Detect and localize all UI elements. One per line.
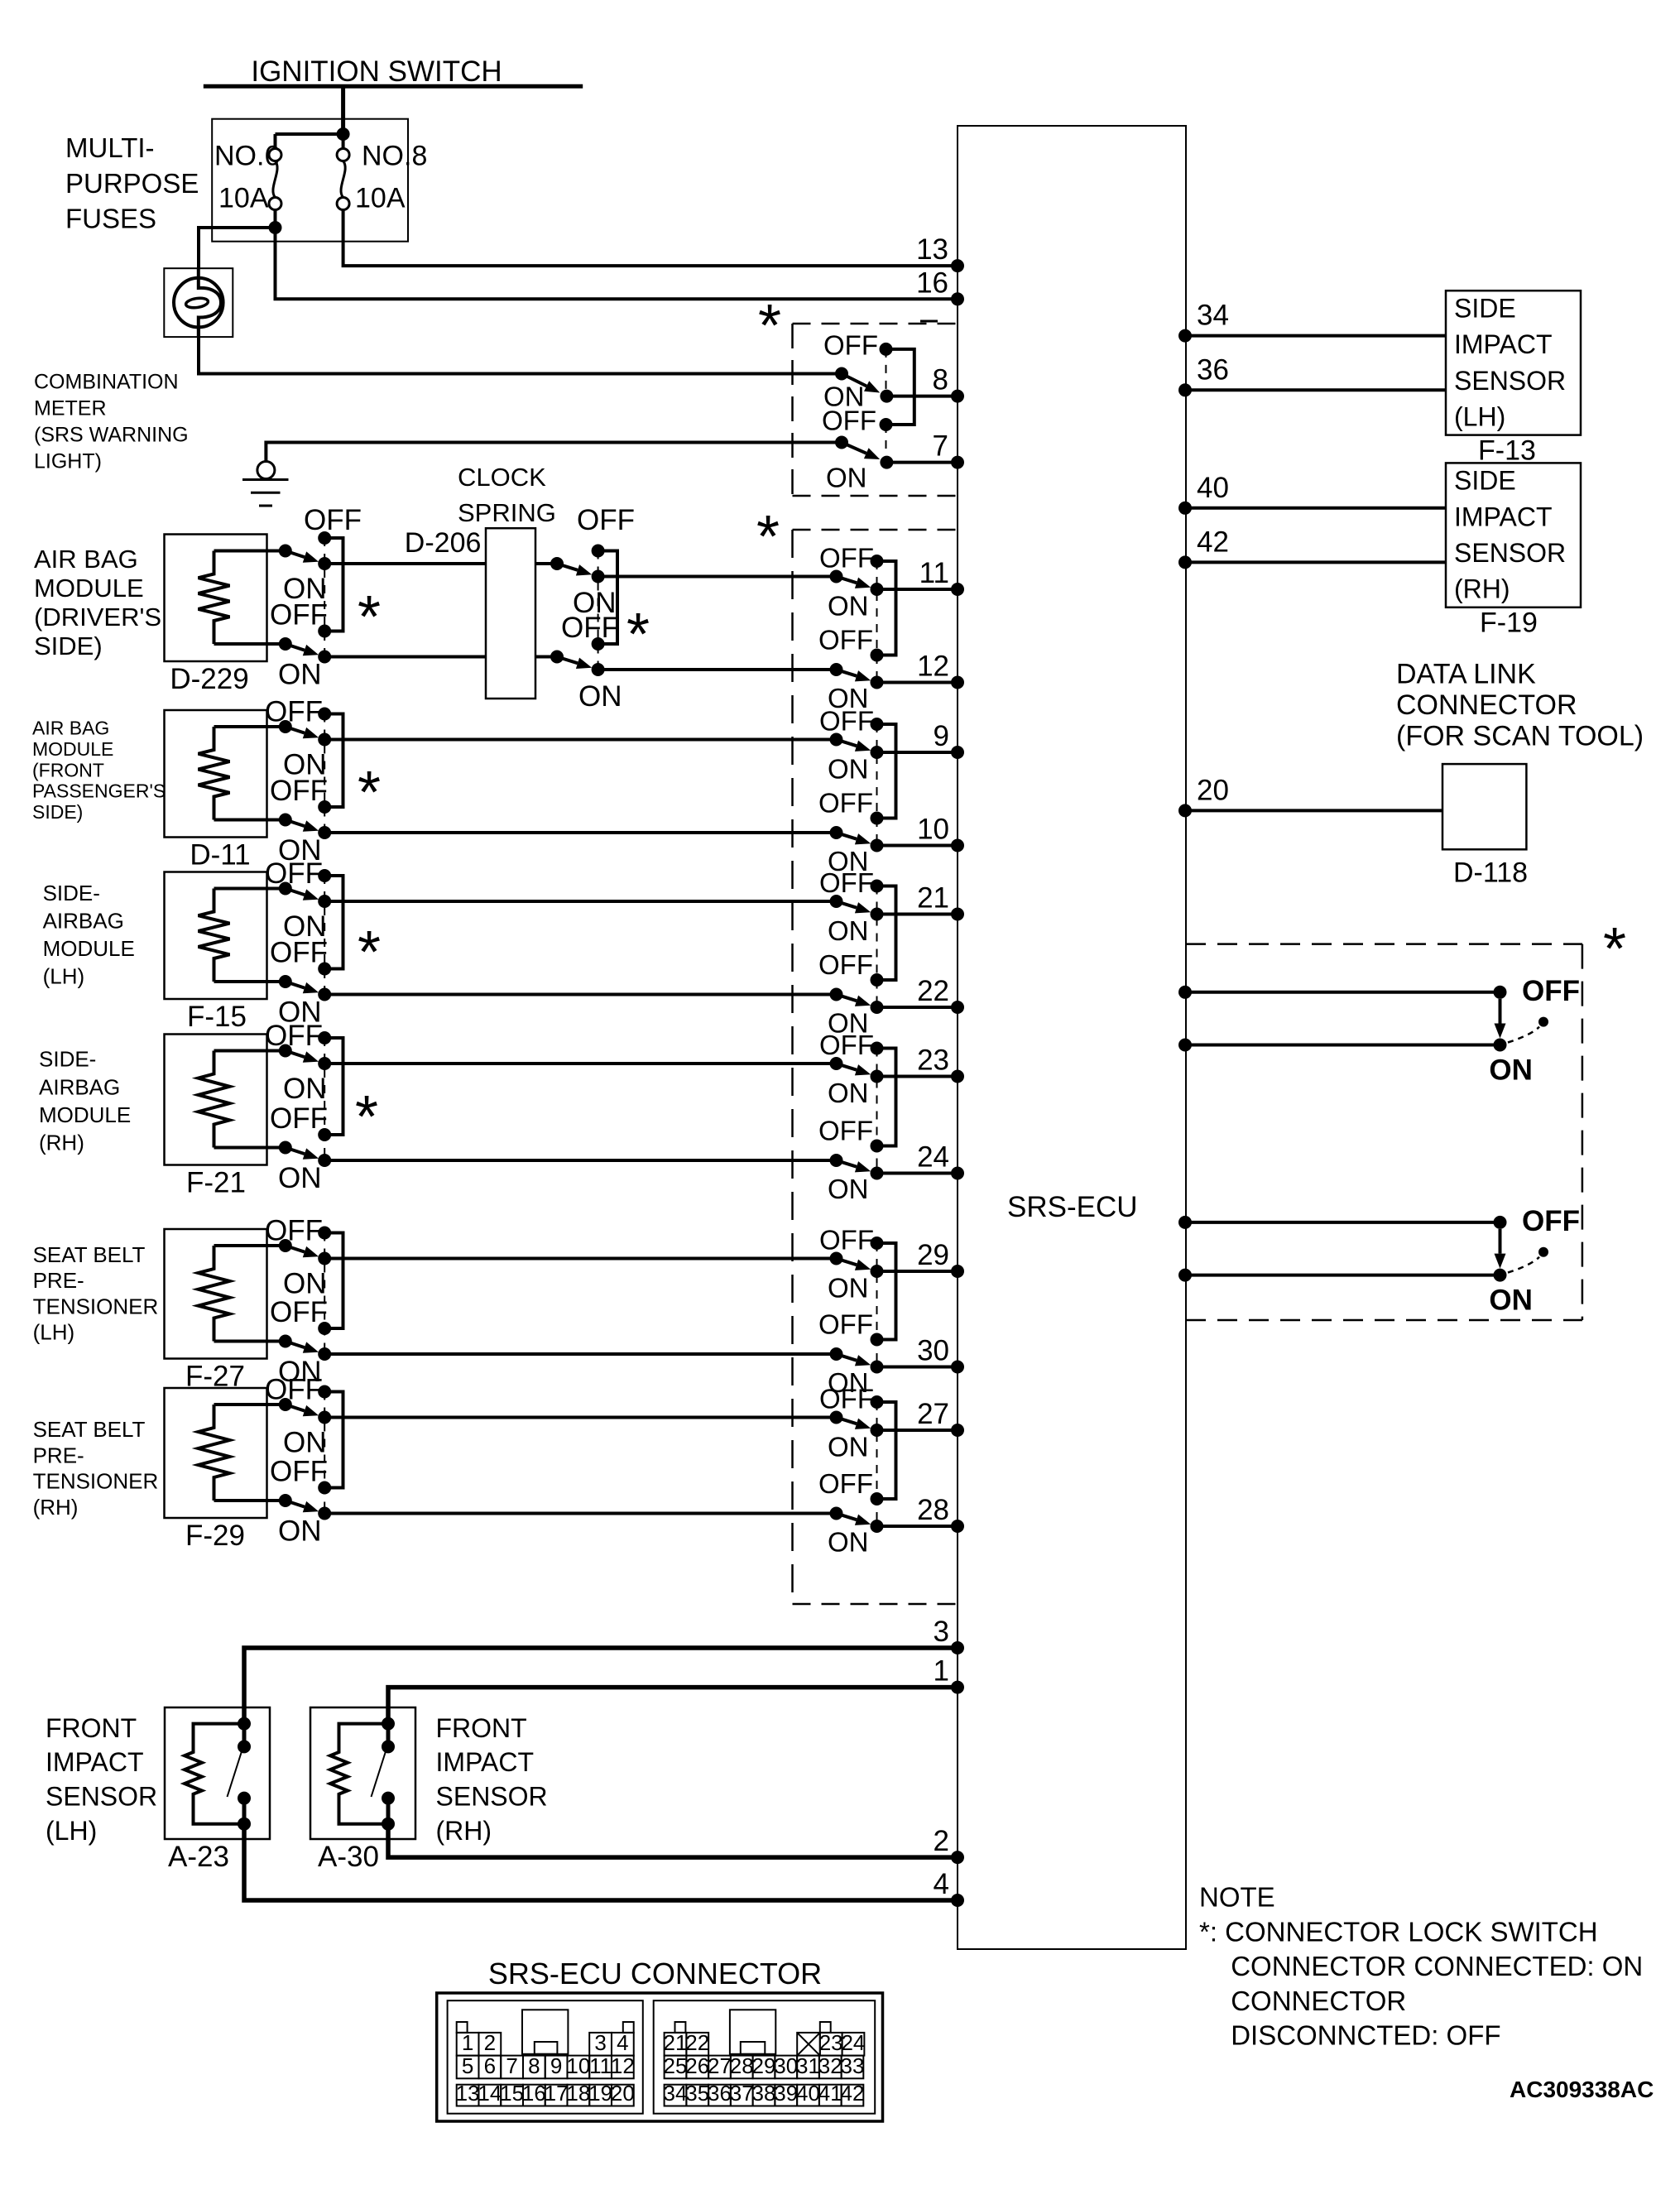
contact OFF right lock switch 2 [1538, 1247, 1548, 1257]
switch arm F-21 top [286, 1051, 305, 1058]
svg-text:OFF: OFF [265, 1374, 323, 1406]
lock linkage dashed pins 21-22 [876, 886, 878, 1008]
svg-text:(RH): (RH) [436, 1816, 492, 1846]
wire OFF bridge clock spring switches [598, 551, 617, 645]
switch arm right lock switch 2 [1499, 1229, 1502, 1254]
svg-text:(RH): (RH) [39, 1130, 84, 1155]
svg-text:D-206: D-206 [405, 527, 482, 559]
module box D-11 [165, 710, 267, 838]
wire squib top lead F-15 [214, 887, 286, 891]
svg-text:OFF: OFF [265, 696, 323, 728]
wire contacts A-30 [386, 1724, 391, 1747]
switch arm D-11 top [286, 727, 305, 733]
svg-text:(SRS WARNING: (SRS WARNING [34, 423, 189, 446]
contact OFF D-11 bottom [318, 800, 331, 814]
svg-text:IMPACT: IMPACT [1454, 502, 1553, 531]
lock linkage dashed F-29 [324, 1392, 325, 1514]
contact OFF pin 7 switch [880, 418, 893, 431]
svg-text:OFF: OFF [818, 625, 873, 655]
svg-text:ON: ON [578, 680, 622, 713]
contact OFF pin 21 switch [871, 880, 884, 893]
dashed box pins 8-7 bottom [793, 495, 958, 497]
wire fuse NO.6 output [274, 210, 277, 230]
switch arm pin 24 [837, 1160, 857, 1167]
wire to fuse NO.8 [342, 136, 345, 149]
module box F-15 [165, 872, 267, 1000]
contact ON pin 24 switch [871, 1167, 884, 1180]
contact input F-21 bottom [279, 1141, 292, 1155]
connector half 2 tab right [820, 2022, 831, 2033]
contact input clock spring switch bottom [550, 651, 564, 664]
svg-text:ON: ON [828, 591, 869, 622]
svg-text:OFF: OFF [561, 612, 619, 644]
wire pin 42 to side impact sensor RH [1186, 560, 1446, 564]
svg-text:*: * [358, 920, 381, 986]
switch arm pin 12 [837, 670, 857, 676]
svg-text:F-21: F-21 [186, 1167, 246, 1199]
contact input pin 9 switch [830, 733, 843, 747]
switch arm F-21 bottom [286, 1148, 305, 1155]
contact ON pin 23 switch [871, 1070, 884, 1083]
node pin 12 [951, 676, 964, 689]
connector half 1 pin cells [457, 2033, 479, 2056]
svg-text:30: 30 [917, 1335, 949, 1367]
resistor A-30 [330, 1724, 388, 1824]
wire to pin 22 [877, 1006, 958, 1009]
svg-text:*: * [626, 602, 650, 668]
wire squib bottom lead D-229 [214, 642, 286, 646]
contact input D-11 top [279, 720, 292, 733]
contact OFF pin 30 switch [871, 1333, 884, 1347]
contact switch lower A-30 [382, 1792, 395, 1805]
lock linkage dashed pins 9-10 [876, 724, 878, 846]
wire D-11 to ECU pin 9 [324, 738, 836, 742]
svg-text:1: 1 [934, 1655, 949, 1688]
lock linkage dashed D-11 [324, 714, 325, 833]
contact input D-229 top [279, 545, 292, 558]
contact ON pin 7 switch [880, 456, 893, 469]
switch arm pin 21 [837, 901, 857, 908]
svg-text:21: 21 [664, 2030, 688, 2055]
svg-text:(FOR SCAN TOOL): (FOR SCAN TOOL) [1396, 721, 1644, 752]
wire squib bottom lead F-27 [214, 1340, 286, 1343]
svg-text:NOTE: NOTE [1199, 1882, 1275, 1913]
svg-text:12: 12 [917, 651, 949, 683]
svg-text:40: 40 [796, 2081, 820, 2106]
svg-text:MULTI-: MULTI- [65, 132, 155, 163]
contact OFF pin 28 switch [871, 1492, 884, 1505]
lock linkage dashed pins 23-24 [876, 1049, 878, 1174]
contact top A-30 [382, 1717, 395, 1731]
wire ignition to fuses [341, 86, 345, 136]
wire OFF bridge pins 29-30 [877, 1243, 896, 1340]
wire squib top lead F-21 [214, 1049, 286, 1053]
svg-text:(LH): (LH) [1454, 402, 1505, 432]
contact OFF right lock switch 1 [1538, 1017, 1548, 1027]
wire OFF bridge F-15 [324, 876, 343, 969]
wire fuse NO.8 to ECU pin 13 [343, 210, 958, 267]
svg-text:SENSOR: SENSOR [1454, 366, 1566, 396]
svg-text:41: 41 [818, 2081, 842, 2106]
svg-text:ON: ON [828, 1273, 869, 1304]
contact ON F-21 top [318, 1057, 331, 1070]
wire F-15 to ECU pin 22 [324, 993, 836, 996]
svg-text:7: 7 [506, 2053, 517, 2078]
svg-text:OFF: OFF [1522, 975, 1580, 1007]
wire to pin 8 [886, 395, 958, 398]
svg-text:OFF: OFF [819, 1384, 874, 1414]
svg-text:(FRONT: (FRONT [32, 759, 104, 780]
wire right lock switch 2 upper [1186, 1221, 1500, 1224]
side impact sensor LH box [1446, 291, 1581, 435]
svg-text:ON: ON [826, 463, 867, 493]
lock linkage dashed pins 11-12 [876, 561, 878, 683]
front impact sensor box A-23 [165, 1707, 270, 1839]
switch arm D-229 bottom [286, 644, 305, 651]
wire OFF bridge pins 9-10 [877, 724, 896, 819]
svg-text:(LH): (LH) [43, 963, 85, 988]
svg-text:AIR BAG: AIR BAG [34, 545, 138, 574]
wire F-29 to ECU pin 28 [324, 1512, 836, 1515]
module box F-29 [165, 1388, 267, 1518]
wire pin 20 to data link connector [1186, 809, 1442, 812]
svg-text:ON: ON [1489, 1285, 1533, 1317]
fuse NO.6 10A [269, 149, 281, 161]
svg-text:OFF: OFF [818, 1116, 873, 1146]
module box F-27 [165, 1229, 267, 1359]
contact ON pin 29 switch [871, 1265, 884, 1278]
svg-text:F-19: F-19 [1480, 607, 1538, 639]
svg-text:7: 7 [933, 430, 948, 463]
svg-text:OFF: OFF [819, 543, 874, 574]
contact switch upper A-23 [238, 1740, 251, 1753]
svg-text:FUSES: FUSES [65, 203, 156, 233]
svg-text:IMPACT: IMPACT [436, 1747, 535, 1777]
contact OFF F-15 bottom [318, 963, 331, 976]
wire to pin 10 [877, 844, 958, 848]
svg-text:*: * [358, 584, 381, 651]
wire pin 36 to side impact sensor LH [1186, 388, 1446, 391]
contact input D-11 bottom [279, 814, 292, 827]
switch arm pin 22 [837, 995, 857, 1001]
svg-text:CONNECTOR: CONNECTOR [1396, 689, 1577, 721]
switch arm pin 29 [837, 1259, 857, 1265]
svg-text:ON: ON [828, 1078, 869, 1108]
node pin 34 [1178, 329, 1192, 343]
svg-text:OFF: OFF [304, 504, 362, 536]
connector half 2 pin cells [665, 2033, 687, 2056]
svg-text:OFF: OFF [819, 1030, 874, 1060]
wire to fuse NO.6 [276, 132, 343, 136]
svg-text:SRS-ECU: SRS-ECU [1007, 1191, 1138, 1223]
node pin 29 [951, 1265, 964, 1278]
switch blade A-30 [372, 1749, 387, 1797]
node pin 4 [951, 1894, 964, 1907]
svg-text:OFF: OFF [818, 788, 873, 819]
lock linkage dashed F-21 [324, 1038, 325, 1160]
combination meter lamp box [164, 268, 233, 337]
node pin 30 [951, 1361, 964, 1374]
svg-text:OFF: OFF [823, 330, 878, 361]
svg-text:20: 20 [611, 2081, 635, 2106]
svg-text:(RH): (RH) [1454, 574, 1510, 604]
svg-text:26: 26 [685, 2053, 709, 2078]
connector half 2 blocked cell X [797, 2033, 820, 2056]
contact ON pin 8 switch [880, 390, 893, 403]
dashed box ECU switches bottom [793, 1603, 958, 1606]
contact input F-29 top [279, 1398, 292, 1411]
contact ON D-229 top [318, 557, 331, 570]
contact right lock switch 1 upper [1494, 986, 1507, 999]
contact ON D-11 top [318, 733, 331, 747]
contact input F-27 top [279, 1239, 292, 1252]
wire squib top lead D-229 [214, 550, 286, 553]
svg-text:13: 13 [916, 233, 948, 266]
contact right lock switch 2 upper [1494, 1216, 1507, 1229]
svg-text:23: 23 [819, 2030, 843, 2055]
contact OFF pin 24 switch [871, 1140, 884, 1153]
svg-text:35: 35 [685, 2081, 709, 2106]
contact switch upper A-30 [382, 1740, 395, 1753]
svg-text:10: 10 [566, 2053, 590, 2078]
contact input pin 22 switch [830, 988, 843, 1001]
svg-text:4: 4 [617, 2030, 628, 2055]
data link connector D-118 box [1442, 764, 1526, 849]
switch arm pin 9 [837, 740, 857, 747]
wire squib bottom lead F-21 [214, 1146, 286, 1150]
connector half 2 [654, 2000, 875, 2114]
contact ON pin 28 switch [871, 1520, 884, 1533]
dashed box ECU switches top [793, 529, 958, 531]
contact input pin 27 switch [830, 1411, 843, 1424]
svg-text:*: * [355, 1084, 378, 1150]
svg-text:COMBINATION: COMBINATION [34, 370, 179, 393]
wire pin 40 to side impact sensor RH [1186, 507, 1446, 510]
svg-text:ON: ON [283, 1073, 327, 1105]
svg-text:ON: ON [828, 754, 869, 785]
svg-text:ON: ON [283, 1268, 327, 1300]
svg-text:IMPACT: IMPACT [46, 1747, 144, 1777]
contact OFF pin 12 switch [871, 649, 884, 662]
node right lock switch 2 lower at ECU [1178, 1269, 1192, 1282]
svg-text:24: 24 [841, 2030, 865, 2055]
svg-text:8: 8 [933, 364, 948, 396]
node pin 7 [951, 456, 964, 469]
contact OFF F-21 top [318, 1031, 331, 1044]
svg-text:ON: ON [828, 1432, 869, 1462]
connector half 1 tab left [457, 2022, 468, 2033]
svg-text:TENSIONER: TENSIONER [33, 1469, 159, 1494]
resistor A-23 [185, 1724, 244, 1824]
wire to pin 23 [877, 1075, 958, 1078]
switch arm pin 7 [842, 443, 866, 454]
svg-text:F-13: F-13 [1478, 435, 1536, 467]
switch arm pin 8 [842, 374, 866, 387]
svg-text:OFF: OFF [270, 599, 328, 631]
svg-text:37: 37 [730, 2081, 754, 2106]
lock linkage dashed D-229 [324, 538, 325, 657]
wire OFF bridge F-27 [324, 1233, 343, 1329]
svg-text:9: 9 [934, 720, 949, 752]
resistor squib F-15 [199, 889, 230, 982]
contact ON pin 22 switch [871, 1001, 884, 1014]
wire A-23 to ECU pin 3 [244, 1648, 958, 1724]
contact OFF pin 23 switch [871, 1042, 884, 1055]
svg-text:33: 33 [841, 2053, 865, 2078]
wire OFF bridge pins 27-28 [877, 1402, 896, 1499]
svg-text:F-29: F-29 [185, 1520, 245, 1552]
switch arm pin 30 [837, 1354, 857, 1361]
svg-text:SIDE-: SIDE- [43, 881, 100, 905]
contact OFF D-229 bottom [318, 625, 331, 638]
contact input pin 11 switch [830, 570, 843, 583]
lock linkage dashed F-15 [324, 876, 325, 995]
svg-text:*: * [358, 760, 381, 826]
fuse NO.8 10A [337, 149, 349, 161]
wire F-21 to ECU pin 24 [324, 1159, 836, 1162]
svg-text:OFF: OFF [270, 1102, 328, 1135]
svg-text:OFF: OFF [818, 1468, 873, 1499]
lock linkage dashed pin 8 [886, 349, 887, 396]
wire clock spring out top [535, 562, 557, 565]
svg-text:CLOCK: CLOCK [458, 463, 546, 492]
node fuse NO.6 output junction [269, 221, 282, 234]
switch arm right lock switch 1 [1499, 999, 1502, 1024]
svg-text:OFF: OFF [265, 1215, 323, 1247]
wire squib top lead F-27 [214, 1244, 286, 1247]
svg-text:FRONT: FRONT [46, 1713, 137, 1743]
svg-text:34: 34 [664, 2081, 688, 2106]
svg-text:5: 5 [462, 2053, 473, 2078]
contact ON F-27 bottom [318, 1347, 331, 1361]
contact ON F-29 top [318, 1411, 331, 1424]
wire D-11 to ECU pin 10 [324, 831, 836, 834]
svg-text:22: 22 [685, 2030, 709, 2055]
switch blade A-23 [228, 1749, 243, 1797]
svg-text:ON: ON [828, 1174, 869, 1204]
node fuse feed junction [337, 127, 350, 141]
svg-text:OFF: OFF [265, 1020, 323, 1052]
svg-text:CONNECTOR: CONNECTOR [1231, 1986, 1406, 2016]
svg-text:22: 22 [917, 975, 949, 1007]
svg-text:10: 10 [917, 814, 949, 846]
contact ON D-11 bottom [318, 826, 331, 839]
wire fuse NO.6 to ECU pin 16 [276, 228, 958, 299]
dashed box ECU switches left [791, 530, 794, 1604]
node pin 8 [951, 390, 964, 403]
svg-text:*: CONNECTOR LOCK SWITCH: *: CONNECTOR LOCK SWITCH [1199, 1916, 1598, 1947]
contact ON pin 9 switch [871, 746, 884, 759]
svg-text:CONNECTOR CONNECTED: ON: CONNECTOR CONNECTED: ON [1231, 1951, 1643, 1981]
wire D-229 to clock spring (bottom) [324, 655, 486, 659]
svg-text:32: 32 [818, 2053, 842, 2078]
contact switch lower A-23 [238, 1792, 251, 1805]
node pin 2 [951, 1851, 964, 1864]
wire to pin 29 [877, 1270, 958, 1273]
svg-text:ON: ON [1489, 1054, 1533, 1087]
svg-text:SENSOR: SENSOR [436, 1782, 548, 1812]
svg-text:MODULE: MODULE [34, 574, 144, 603]
wire clock spring out bottom [535, 655, 557, 659]
node pin 11 [951, 583, 964, 596]
switch arm pin 27 [837, 1418, 857, 1424]
switch arm D-229 top [286, 551, 305, 558]
wire to pin 30 [877, 1366, 958, 1369]
contact input pin 29 switch [830, 1252, 843, 1265]
connector half 2 keyway [730, 2010, 775, 2054]
svg-text:*: * [758, 293, 781, 359]
dashed box pins 8-7 left [791, 324, 794, 496]
svg-text:4: 4 [934, 1868, 949, 1900]
dashed box right top [1186, 943, 1582, 945]
svg-text:36: 36 [1197, 353, 1229, 386]
contact bottom A-23 [238, 1818, 251, 1831]
node pin 28 [951, 1520, 964, 1533]
wire A-23 to ECU pin 4 [244, 1824, 958, 1900]
svg-text:18: 18 [566, 2081, 590, 2106]
svg-text:36: 36 [708, 2081, 732, 2106]
svg-text:SIDE: SIDE [1454, 293, 1516, 323]
contact right lock switch 2 lower (ON) [1494, 1269, 1507, 1282]
svg-text:16: 16 [522, 2081, 546, 2106]
switch arm D-11 bottom [286, 820, 305, 827]
connector half 1 [448, 2000, 643, 2114]
svg-text:2: 2 [484, 2030, 496, 2055]
wire ignition switch bus [204, 84, 583, 89]
wire to pin 9 [877, 751, 958, 754]
svg-text:28: 28 [730, 2053, 754, 2078]
svg-text:11: 11 [589, 2053, 612, 2078]
svg-text:28: 28 [917, 1494, 949, 1526]
dashed box right side [1582, 944, 1584, 1320]
wire pin 34 to side impact sensor LH [1186, 334, 1446, 338]
contact input F-15 bottom [279, 975, 292, 988]
contact input F-15 top [279, 882, 292, 896]
switch arm F-15 top [286, 889, 305, 896]
wire to pin 24 [877, 1172, 958, 1175]
contact OFF pin 9 switch [871, 718, 884, 731]
wire squib bottom lead F-15 [214, 980, 286, 983]
svg-text:MODULE: MODULE [39, 1102, 131, 1127]
contact OFF clock spring switch top [592, 545, 605, 558]
wire OFF bridge pins 8-7 [886, 349, 914, 425]
svg-text:OFF: OFF [819, 1225, 874, 1256]
switch arm clock spring bottom [557, 657, 578, 664]
contact ON F-15 bottom [318, 988, 331, 1001]
wire OFF bridge F-21 [324, 1038, 343, 1135]
svg-text:D-118: D-118 [1453, 857, 1528, 889]
svg-text:10A: 10A [218, 182, 269, 214]
svg-text:*: * [756, 504, 780, 570]
svg-text:8: 8 [528, 2053, 540, 2078]
contact input F-29 bottom [279, 1494, 292, 1507]
node right lock switch 1 lower at ECU [1178, 1039, 1192, 1052]
wire F-27 to ECU pin 30 [324, 1352, 836, 1356]
svg-text:OFF: OFF [270, 1296, 328, 1328]
svg-text:DATA LINK: DATA LINK [1396, 659, 1536, 690]
svg-text:SIDE): SIDE) [32, 801, 83, 823]
module box F-21 [165, 1035, 267, 1165]
contact input pin 10 switch [830, 826, 843, 839]
wire F-27 to ECU pin 29 [324, 1257, 836, 1261]
svg-text:(LH): (LH) [33, 1320, 75, 1345]
svg-text:3: 3 [934, 1616, 949, 1648]
contact input D-229 bottom [279, 637, 292, 651]
contact OFF F-29 bottom [318, 1481, 331, 1495]
lock linkage dashed pin 7 [886, 425, 887, 463]
svg-text:F-15: F-15 [187, 1001, 247, 1033]
svg-text:SIDE): SIDE) [34, 631, 103, 660]
